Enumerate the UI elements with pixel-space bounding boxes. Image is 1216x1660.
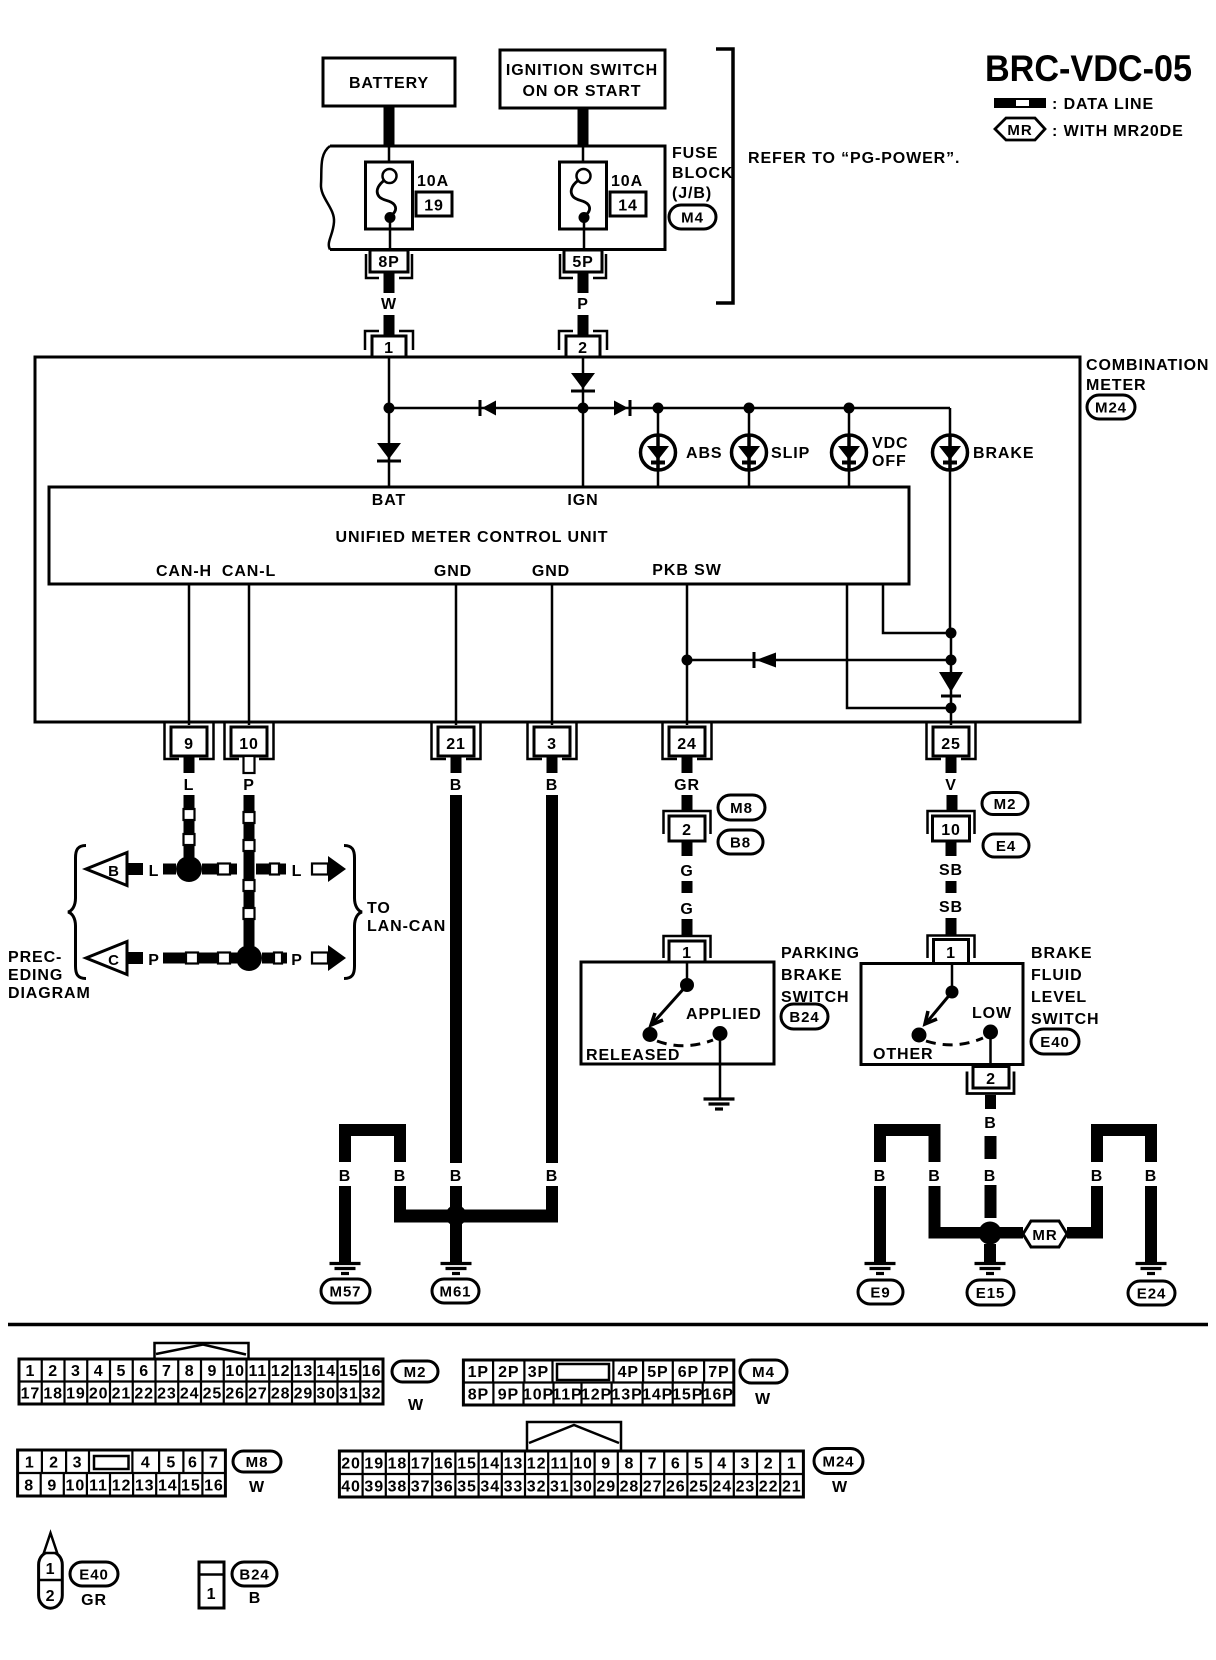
wire PKB SW pin 24 [686, 584, 689, 725]
svg-text:FLUID: FLUID [1031, 967, 1083, 984]
node BAT bus [384, 403, 395, 414]
svg-text:LEVEL: LEVEL [1031, 989, 1087, 1006]
svg-text:B: B [394, 1168, 406, 1185]
svg-text:1: 1 [207, 1586, 217, 1603]
svg-text:P: P [291, 952, 303, 969]
data line P vertical [244, 795, 255, 812]
svg-text:1: 1 [946, 945, 956, 962]
svg-text:11: 11 [550, 1455, 569, 1472]
svg-text:ABS: ABS [686, 445, 722, 462]
svg-text:BRC-VDC-05: BRC-VDC-05 [985, 48, 1192, 89]
svg-text:3: 3 [73, 1454, 83, 1471]
svg-text:G: G [680, 863, 693, 880]
diode left pkb [753, 652, 756, 668]
lamp SLIP [732, 435, 767, 470]
svg-text:TO: TO [367, 900, 391, 917]
wire W stub [384, 272, 395, 293]
wire SLIP lamp [748, 408, 751, 487]
ground oval E9 [858, 1280, 903, 1304]
svg-text:9: 9 [47, 1477, 57, 1494]
ground E15 [975, 1262, 1006, 1265]
ground parking brake [704, 1097, 735, 1100]
ground oval M57 [321, 1279, 370, 1303]
svg-text:31: 31 [550, 1478, 570, 1495]
wire stub below 21 [451, 756, 462, 773]
svg-text:12: 12 [271, 1363, 291, 1380]
node brake 633 [946, 628, 957, 639]
svg-text:19: 19 [424, 198, 444, 215]
svg-text:P: P [148, 952, 160, 969]
wire stub below 3 [547, 756, 558, 773]
svg-text:REFER TO “PG-POWER”.: REFER TO “PG-POWER”. [748, 150, 960, 167]
connector 21 (meter bottom) [432, 723, 481, 759]
table M2 oval [392, 1361, 438, 1382]
wire W stub 2 [384, 315, 395, 337]
svg-text:CAN-H: CAN-H [156, 563, 212, 580]
lamp BRAKE [933, 435, 968, 470]
battery box [323, 58, 455, 106]
svg-text:26: 26 [666, 1478, 686, 1495]
svg-text:1: 1 [682, 945, 692, 962]
left brace [68, 846, 86, 979]
svg-text:7P: 7P [708, 1364, 729, 1381]
connector E40 oval label [70, 1562, 118, 1586]
svg-text:13: 13 [504, 1455, 524, 1472]
svg-text:9P: 9P [498, 1387, 519, 1404]
svg-text:P: P [243, 777, 255, 794]
svg-text:4: 4 [94, 1363, 104, 1380]
svg-text:13: 13 [294, 1363, 314, 1380]
svg-text:LOW: LOW [972, 1005, 1012, 1022]
svg-text:COMBINATION: COMBINATION [1086, 357, 1209, 374]
svg-text:4: 4 [717, 1455, 727, 1472]
svg-text:4: 4 [141, 1454, 151, 1471]
wire VDC lamp [848, 408, 851, 487]
wire loop E9 [874, 1124, 941, 1136]
svg-text:27: 27 [643, 1478, 663, 1495]
svg-text:B24: B24 [239, 1566, 269, 1583]
wire brake down to 25 [950, 633, 953, 725]
svg-text:17: 17 [411, 1455, 431, 1472]
svg-text:VDC: VDC [872, 435, 908, 452]
svg-text:GR: GR [674, 777, 700, 794]
svg-text:IGN: IGN [567, 492, 598, 509]
svg-text:RELEASED: RELEASED [586, 1047, 680, 1064]
svg-text:E40: E40 [1040, 1034, 1069, 1051]
svg-text:17: 17 [21, 1386, 41, 1403]
connector table M8 [18, 1450, 226, 1496]
ground M57 [330, 1262, 361, 1265]
svg-text:22: 22 [134, 1386, 154, 1403]
wire stub below 25 [946, 756, 957, 773]
svg-text:3: 3 [740, 1455, 750, 1472]
wire low to connector 2 [989, 1032, 992, 1066]
svg-text:B: B [450, 777, 462, 794]
svg-text:BRAKE: BRAKE [973, 445, 1034, 462]
svg-text:L: L [149, 863, 160, 880]
node VDC [844, 403, 855, 414]
svg-text:M4: M4 [752, 1364, 775, 1381]
svg-text:C: C [108, 952, 120, 969]
wire CAN-H pin 9 [188, 584, 191, 725]
svg-text:25: 25 [689, 1478, 709, 1495]
svg-text:18: 18 [388, 1455, 408, 1472]
svg-text:B: B [984, 1115, 996, 1132]
svg-text:: WITH MR20DE: : WITH MR20DE [1052, 123, 1184, 140]
svg-text:28: 28 [620, 1478, 640, 1495]
svg-text:P: P [577, 296, 589, 313]
fuse 10A 19 [388, 146, 391, 170]
table M24 tab [527, 1422, 621, 1451]
svg-text:G: G [680, 901, 693, 918]
svg-text:M2: M2 [994, 796, 1017, 813]
svg-text:6: 6 [139, 1363, 149, 1380]
svg-text:E4: E4 [996, 838, 1016, 855]
svg-text:2: 2 [48, 1363, 58, 1380]
svg-text:30: 30 [573, 1478, 593, 1495]
svg-text:B: B [339, 1168, 351, 1185]
svg-text:4P: 4P [618, 1364, 639, 1381]
diode on BAT wire [377, 443, 401, 459]
svg-text:FUSE: FUSE [672, 145, 718, 162]
diode left on bus [479, 400, 482, 416]
wire loop E24 [1091, 1124, 1157, 1136]
wire brake lamp L to control unit [883, 584, 951, 633]
wire E15 down [984, 1244, 996, 1262]
arrow to LAN-CAN row B [312, 864, 328, 875]
node P junction [236, 945, 262, 971]
svg-text:OFF: OFF [872, 453, 907, 470]
wire SB dash [946, 881, 957, 893]
dashed arc bf [926, 1038, 983, 1045]
svg-text:6P: 6P [678, 1364, 699, 1381]
svg-text:SWITCH: SWITCH [1031, 1011, 1100, 1028]
connector B24 shape [199, 1562, 224, 1608]
svg-text:7: 7 [209, 1454, 219, 1471]
svg-text:B: B [546, 777, 558, 794]
wire P stub 2 [578, 315, 589, 337]
svg-text:10A: 10A [417, 173, 449, 190]
switch pivot [686, 962, 689, 985]
connector B8 oval [718, 830, 763, 854]
svg-text:E40: E40 [79, 1566, 108, 1583]
legend MR hexagon [995, 118, 1045, 140]
svg-text:SB: SB [939, 899, 963, 916]
svg-text:5: 5 [116, 1363, 126, 1380]
bus wire [389, 407, 950, 410]
wire SB stub2 [946, 918, 957, 936]
wire V [947, 795, 958, 812]
svg-text:11P: 11P [552, 1387, 582, 1404]
svg-text:8P: 8P [468, 1387, 489, 1404]
ground E9 [865, 1262, 896, 1265]
svg-text:14P: 14P [642, 1387, 673, 1404]
connector 24 (meter bottom) [663, 723, 712, 759]
svg-text:31: 31 [339, 1386, 359, 1403]
svg-text:B: B [1145, 1168, 1157, 1185]
svg-text:8P: 8P [378, 254, 399, 271]
wire SB stub [946, 841, 957, 856]
svg-text:M57: M57 [330, 1283, 362, 1300]
right brace [344, 846, 362, 979]
svg-text:3: 3 [71, 1363, 81, 1380]
svg-text:LAN-CAN: LAN-CAN [367, 918, 446, 935]
svg-text:M2: M2 [404, 1364, 427, 1381]
svg-text:PARKING: PARKING [781, 945, 860, 962]
wire ignition to fuse block [578, 108, 589, 146]
svg-text:29: 29 [294, 1386, 314, 1403]
node brake 660 [946, 655, 957, 666]
connector E40 shape [39, 1552, 63, 1609]
wire G dash [682, 881, 693, 893]
svg-text:GND: GND [434, 563, 472, 580]
svg-text:BRAKE: BRAKE [1031, 945, 1092, 962]
svg-text:3P: 3P [528, 1364, 549, 1381]
fuse block box [330, 146, 665, 250]
svg-text:1: 1 [787, 1455, 797, 1472]
svg-text:MR: MR [1007, 122, 1032, 139]
svg-text:18: 18 [43, 1386, 63, 1403]
row C wire [127, 952, 143, 964]
svg-text:10: 10 [941, 822, 961, 839]
svg-text:ON OR START: ON OR START [523, 83, 642, 100]
svg-text:B: B [928, 1168, 940, 1185]
svg-text:9: 9 [207, 1363, 217, 1380]
svg-text:2P: 2P [498, 1364, 519, 1381]
wire GR [682, 795, 693, 811]
svg-text:16: 16 [434, 1455, 454, 1472]
wire CAN-L pin 10 [248, 584, 251, 725]
node E15 junction [979, 1222, 1002, 1245]
wire stub below 9 [184, 756, 195, 773]
svg-text:B: B [874, 1168, 886, 1185]
separator line [8, 1323, 1208, 1327]
svg-text:EDING: EDING [8, 967, 63, 984]
svg-text:E24: E24 [1137, 1285, 1166, 1302]
svg-text:19: 19 [364, 1455, 384, 1472]
svg-text:2: 2 [682, 822, 692, 839]
svg-text:38: 38 [388, 1478, 408, 1495]
svg-text:14: 14 [158, 1477, 178, 1494]
svg-text:19: 19 [66, 1386, 86, 1403]
wire applied to ground [719, 1034, 722, 1099]
svg-text:BAT: BAT [372, 492, 406, 509]
svg-text:21: 21 [112, 1386, 132, 1403]
svg-text:W: W [249, 1479, 265, 1496]
connector 2 M8/B8 [664, 811, 711, 834]
wire stub below 24 [682, 756, 693, 773]
dashed arc [657, 1040, 713, 1046]
wire 847 branch [847, 584, 951, 708]
wire G stub [682, 841, 693, 856]
svg-text:B24: B24 [789, 1009, 819, 1026]
table M8 oval [233, 1451, 281, 1472]
svg-text:B: B [249, 1590, 261, 1607]
svg-text:35: 35 [457, 1478, 477, 1495]
svg-text:SB: SB [939, 862, 963, 879]
svg-text:M8: M8 [730, 800, 753, 817]
connector 1 brake fluid [928, 936, 975, 959]
triangle B preceding [86, 853, 127, 886]
svg-text:24: 24 [677, 736, 697, 753]
connector 2 brake fluid bottom [973, 1067, 1009, 1089]
table M4 oval [740, 1360, 787, 1383]
switch arm [653, 985, 687, 1023]
svg-text:10: 10 [66, 1477, 86, 1494]
wire GND pin 21 [455, 584, 458, 725]
connector 9 (meter bottom) [165, 723, 214, 759]
connector M8 oval [718, 795, 765, 820]
svg-text:CAN-L: CAN-L [222, 563, 276, 580]
connector 1 (meter) [365, 331, 413, 350]
svg-text:14: 14 [618, 198, 638, 215]
svg-text:BRAKE: BRAKE [781, 967, 842, 984]
svg-text:: DATA LINE: : DATA LINE [1052, 96, 1154, 113]
svg-text:20: 20 [341, 1455, 361, 1472]
svg-text:UNIFIED METER CONTROL UNIT: UNIFIED METER CONTROL UNIT [336, 529, 609, 546]
contact low [983, 1025, 998, 1040]
contact released [643, 1027, 658, 1042]
ground oval E15 [967, 1280, 1014, 1305]
svg-text:16: 16 [362, 1363, 382, 1380]
wire IGN [582, 357, 585, 487]
svg-text:25: 25 [941, 736, 961, 753]
svg-text:10: 10 [239, 736, 259, 753]
row B wire [127, 863, 143, 875]
svg-text:14: 14 [480, 1455, 500, 1472]
contact applied [713, 1026, 728, 1041]
svg-text:10P: 10P [523, 1387, 554, 1404]
fuse 10A 14 [582, 146, 585, 170]
svg-text:5P: 5P [572, 254, 593, 271]
svg-text:6: 6 [671, 1455, 681, 1472]
svg-text:M24: M24 [823, 1453, 855, 1470]
combination meter box M24 [35, 357, 1080, 722]
data line L vertical [184, 795, 195, 809]
svg-text:5P: 5P [647, 1364, 668, 1381]
svg-text:APPLIED: APPLIED [686, 1006, 762, 1023]
wire GND pin 3 [551, 584, 554, 725]
svg-text:IGNITION SWITCH: IGNITION SWITCH [506, 62, 658, 79]
svg-text:25: 25 [203, 1386, 223, 1403]
svg-text:W: W [832, 1479, 848, 1496]
svg-text:29: 29 [596, 1478, 616, 1495]
table M8 key slot [94, 1456, 129, 1469]
bracket refer to PG-POWER [716, 49, 733, 303]
svg-text:B: B [1091, 1168, 1103, 1185]
svg-text:PKB SW: PKB SW [652, 562, 721, 579]
connector 10 M2/E4 [928, 811, 975, 834]
svg-text:15: 15 [181, 1477, 201, 1494]
svg-text:2: 2 [986, 1071, 996, 1088]
wire ABS lamp [657, 408, 660, 487]
node pkb [682, 655, 693, 666]
svg-text:BLOCK: BLOCK [672, 165, 733, 182]
connector 3 (meter bottom) [528, 723, 577, 759]
svg-text:28: 28 [271, 1386, 291, 1403]
wire BAT [388, 357, 391, 487]
table M4 key slot [557, 1364, 609, 1380]
svg-text:15: 15 [339, 1363, 359, 1380]
svg-text:GND: GND [532, 563, 570, 580]
svg-text:1P: 1P [468, 1364, 489, 1381]
node ABS [653, 403, 664, 414]
svg-text:1: 1 [384, 340, 394, 357]
wire horizontal E15 right [1067, 1227, 1103, 1239]
node L junction [176, 856, 202, 882]
MR hexagon [1023, 1221, 1067, 1247]
connector table M2 [19, 1359, 383, 1404]
switch pivot bf [951, 964, 954, 993]
svg-text:2: 2 [46, 1588, 56, 1605]
svg-text:SLIP: SLIP [771, 445, 810, 462]
wire G stub2 [682, 919, 693, 936]
svg-text:7: 7 [162, 1363, 172, 1380]
svg-text:10: 10 [225, 1363, 245, 1380]
svg-text:B: B [984, 1168, 996, 1185]
svg-text:20: 20 [89, 1386, 109, 1403]
svg-text:24: 24 [712, 1478, 732, 1495]
table M24 oval [814, 1449, 863, 1474]
svg-text:39: 39 [364, 1478, 384, 1495]
svg-text:7: 7 [648, 1455, 658, 1472]
svg-text:W: W [408, 1397, 424, 1414]
lamp VDC OFF [832, 435, 867, 470]
svg-text:21: 21 [446, 736, 466, 753]
connector 1 parking brake [664, 936, 711, 958]
svg-text:B: B [108, 863, 120, 880]
wire battery to fuse block [384, 106, 395, 146]
svg-text:GR: GR [81, 1592, 107, 1609]
svg-text:5: 5 [694, 1455, 704, 1472]
svg-text:1: 1 [25, 1363, 35, 1380]
svg-text:23: 23 [736, 1478, 756, 1495]
svg-text:32: 32 [362, 1386, 382, 1403]
connector 25 (meter bottom) [927, 723, 976, 759]
table M2 tab [155, 1343, 249, 1359]
svg-text:37: 37 [411, 1478, 431, 1495]
svg-text:36: 36 [434, 1478, 454, 1495]
svg-text:W: W [755, 1391, 771, 1408]
svg-text:OTHER: OTHER [873, 1046, 934, 1063]
wire B stub bf [985, 1095, 996, 1109]
wire stub below 10 [244, 756, 255, 773]
svg-text:(J/B): (J/B) [672, 185, 712, 202]
triangle C preceding [86, 942, 127, 975]
diode right on bus [614, 401, 628, 416]
legend data line symbol [994, 98, 1046, 108]
unified meter control unit box [49, 487, 909, 584]
svg-text:DIAGRAM: DIAGRAM [8, 985, 91, 1002]
wire pkb diode horizontal [687, 659, 951, 662]
svg-text:METER: METER [1086, 377, 1147, 394]
ground oval M61 [432, 1279, 479, 1303]
connector table M24 [339, 1451, 803, 1497]
brake fluid level switch box [861, 964, 1023, 1065]
wire B dash E15 [985, 1136, 997, 1159]
ground M61 [441, 1262, 472, 1265]
svg-text:15P: 15P [672, 1387, 703, 1404]
svg-text:3: 3 [547, 736, 557, 753]
connector 2 (meter) [559, 331, 607, 350]
node M61 junction [446, 1205, 467, 1226]
svg-text:11: 11 [89, 1477, 108, 1494]
svg-text:BATTERY: BATTERY [349, 75, 429, 92]
svg-text:M8: M8 [246, 1454, 269, 1471]
svg-text:1: 1 [46, 1561, 56, 1578]
connector E4 oval [983, 834, 1029, 857]
svg-text:40: 40 [341, 1478, 361, 1495]
